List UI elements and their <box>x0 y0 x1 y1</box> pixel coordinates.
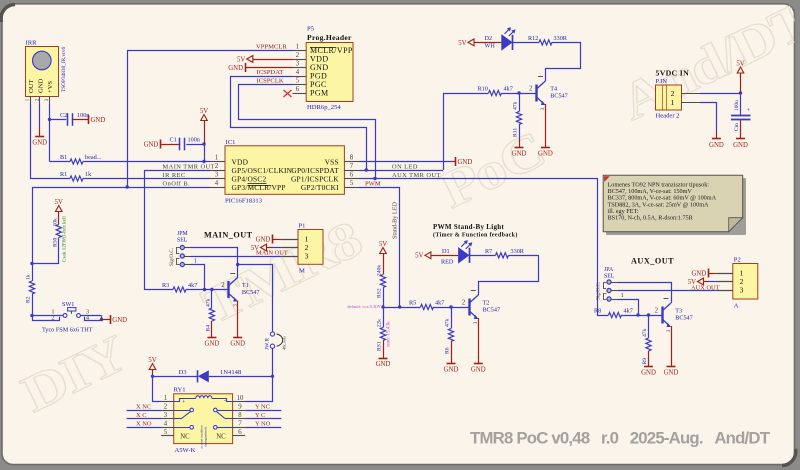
svg-text:GND: GND <box>664 370 679 377</box>
svg-text:10k: 10k <box>53 218 59 227</box>
svg-text:2: 2 <box>215 163 219 170</box>
svg-text:1k: 1k <box>85 171 92 178</box>
transistor Q4 T4 BC547 <box>529 77 568 111</box>
wire JPA top to T3 collector <box>617 283 671 304</box>
wire IRR OUT to R1 <box>31 104 71 179</box>
svg-text:BC547: BC547 <box>675 315 693 322</box>
wire R5 to T2 base <box>434 305 470 308</box>
wire ICSPDAT net <box>231 69 367 170</box>
connector P2 AUX <box>716 257 758 310</box>
wire R10 to T4 base <box>502 91 537 94</box>
svg-text:R7: R7 <box>485 248 492 255</box>
svg-text:T4: T4 <box>550 86 557 93</box>
svg-text:WH: WH <box>485 43 496 50</box>
svg-text:PWM Stand-By Light: PWM Stand-By Light <box>433 223 504 231</box>
ground R11 <box>515 147 524 149</box>
svg-text:NC: NC <box>180 434 190 441</box>
power 5V at RS2 <box>379 241 387 275</box>
svg-text:HDR6p_254: HDR6p_254 <box>307 104 341 111</box>
wire PWM net <box>360 181 400 308</box>
ferrite bead B1 <box>60 154 102 164</box>
svg-text:100n: 100n <box>188 137 200 144</box>
svg-text:+VS: +VS <box>47 81 54 93</box>
resistor R4 47k <box>206 290 215 338</box>
svg-text:GND: GND <box>709 142 724 149</box>
svg-text:R6: R6 <box>445 347 451 354</box>
connector P1 MAIN <box>281 223 323 275</box>
svg-text:2: 2 <box>671 89 675 98</box>
svg-text:P5: P5 <box>307 26 315 33</box>
svg-text:22k: 22k <box>377 319 383 328</box>
ground RS1 <box>379 358 388 360</box>
svg-text:5VDC IN: 5VDC IN <box>656 69 690 78</box>
svg-text:1: 1 <box>215 155 218 162</box>
svg-text:VPPMCLR: VPPMCLR <box>256 44 287 51</box>
svg-text:1: 1 <box>671 98 675 107</box>
svg-text:4k7: 4k7 <box>624 308 633 315</box>
wire R50 to OnOff net <box>32 238 59 264</box>
wire relay Y contacts <box>245 411 281 428</box>
svg-text:+: + <box>747 107 751 114</box>
svg-text:Sig/O.C.: Sig/O.C. <box>596 282 602 300</box>
svg-text:47k: 47k <box>642 328 648 337</box>
transistor Q2 T2 BC547 <box>462 291 500 325</box>
svg-text:10: 10 <box>237 395 244 402</box>
capacitor Cin 100u <box>731 93 751 139</box>
svg-text:R2: R2 <box>26 296 32 303</box>
wire JPA bottom to T3 base <box>617 300 640 317</box>
svg-text:1k: 1k <box>26 274 32 280</box>
svg-text:OnOff B.: OnOff B. <box>163 180 191 187</box>
power 5V arrow D1 <box>415 252 458 260</box>
svg-text:(Timer & Function feedback): (Timer & Function feedback) <box>433 232 518 239</box>
svg-text:Prog.Header: Prog.Header <box>307 33 352 42</box>
ground T1 <box>233 337 242 339</box>
svg-text:R12: R12 <box>528 35 538 42</box>
power 5V input <box>736 61 744 94</box>
ground IRR <box>35 136 44 138</box>
svg-text:MAIN OUT: MAIN OUT <box>256 249 288 256</box>
svg-text:MAIN TMR OUT: MAIN TMR OUT <box>163 163 216 170</box>
svg-text:5: 5 <box>350 180 354 187</box>
svg-text:5V: 5V <box>736 61 744 68</box>
svg-text:SW1: SW1 <box>62 301 74 308</box>
svg-text:AUX OUT: AUX OUT <box>691 284 720 291</box>
wire R1 to IC <box>83 178 210 180</box>
resistor RS1 22k <box>377 307 392 358</box>
resistor R3 4k7 <box>162 282 197 292</box>
svg-text:1: 1 <box>164 395 167 402</box>
power 5V at D3 <box>148 357 156 378</box>
svg-text:3: 3 <box>164 412 168 419</box>
svg-text:demagnetized): demagnetized) <box>203 427 207 446</box>
resistor RS2 240k <box>377 265 386 307</box>
svg-text:GND: GND <box>205 341 220 348</box>
wire JW.R to relay coil <box>245 348 274 401</box>
svg-text:JW.R: JW.R <box>265 338 271 350</box>
svg-text:R50: R50 <box>53 237 59 247</box>
svg-text:JPA: JPA <box>604 267 614 273</box>
wire T2 emitter to ground <box>478 318 480 364</box>
svg-text:GND: GND <box>538 150 553 157</box>
note box transistor types <box>603 175 746 235</box>
resistor R11 47k <box>513 93 522 147</box>
svg-text:IR REC: IR REC <box>163 172 186 179</box>
svg-text:P1: P1 <box>299 223 306 230</box>
svg-text:GND: GND <box>471 367 486 374</box>
svg-text:Header 2: Header 2 <box>656 113 680 120</box>
svg-text:X NO: X NO <box>136 420 152 427</box>
wire VSS to ground <box>360 161 456 163</box>
svg-text:JPM: JPM <box>177 231 188 237</box>
svg-text:Sig/O.C.: Sig/O.C. <box>169 248 175 266</box>
svg-text:ICSPDAT: ICSPDAT <box>257 69 284 76</box>
svg-text:ON LED: ON LED <box>392 163 418 170</box>
wire P.IN pin2 to 5V node <box>700 91 742 94</box>
svg-text:GND: GND <box>144 141 159 148</box>
svg-text:6: 6 <box>350 172 354 179</box>
svg-text:6: 6 <box>296 86 300 93</box>
svg-text:C2: C2 <box>60 112 67 119</box>
wire T4 collector loop <box>546 43 581 82</box>
wire ON LED net <box>360 94 489 172</box>
resistor R6 47k <box>445 307 454 364</box>
svg-text:5V: 5V <box>55 199 63 206</box>
power 5V arrow D2 <box>458 39 501 47</box>
svg-text:5V: 5V <box>458 40 466 47</box>
wire T3 emitter to ground <box>671 326 673 367</box>
svg-text:Y NO: Y NO <box>255 420 271 427</box>
svg-text:4k7: 4k7 <box>435 300 444 307</box>
resistor R1 1k <box>60 171 92 181</box>
resistor R7 330R <box>485 248 525 258</box>
svg-text:D2: D2 <box>485 35 493 42</box>
IC U1 IC1 PIC16F18313 <box>210 139 360 205</box>
svg-text:100u: 100u <box>734 100 740 111</box>
svg-text:BC547: BC547 <box>550 93 568 100</box>
wire AUX TMR OUT net <box>360 172 609 316</box>
svg-text:GND: GND <box>230 341 245 348</box>
svg-text:1: 1 <box>194 257 197 264</box>
LED D2 WH <box>485 27 540 51</box>
svg-text:2: 2 <box>529 86 533 93</box>
svg-text:3: 3 <box>296 61 300 68</box>
svg-text:P2: P2 <box>734 257 741 264</box>
svg-text:5V: 5V <box>379 241 387 248</box>
svg-text:Cin: Cin <box>734 123 740 131</box>
resistor R5 4k7 <box>409 300 444 310</box>
capacitor C2 100n <box>60 112 89 126</box>
svg-text:GND: GND <box>512 150 527 157</box>
svg-text:TMR8 PoC v0,48 r.0 2025-Au: TMR8 PoC v0,48 r.0 2025-Aug. And/DT <box>470 429 771 448</box>
ground T2 <box>474 363 483 365</box>
wire C2 to ground <box>72 119 88 121</box>
svg-text:GND: GND <box>32 140 47 147</box>
svg-text:BC547: BC547 <box>242 289 260 296</box>
svg-text:R9: R9 <box>642 358 648 365</box>
svg-text:330R: 330R <box>511 248 525 255</box>
svg-text:D1: D1 <box>442 248 450 255</box>
svg-text:R5: R5 <box>409 300 416 307</box>
svg-text:PGM: PGM <box>310 89 329 98</box>
svg-text:C1: C1 <box>170 137 177 144</box>
wire MAIN TMR OUT to R3 <box>145 171 211 290</box>
svg-text:5V: 5V <box>200 108 208 115</box>
svg-text:sum: 15.43k: sum: 15.43k <box>386 321 392 347</box>
svg-text:PIC16F18313: PIC16F18313 <box>225 198 263 205</box>
svg-text:BS170, N-ch, 0.5A, R-dson:1.75: BS170, N-ch, 0.5A, R-dson:1.75R <box>608 215 694 222</box>
power 5V at R50 <box>55 199 63 225</box>
ground C1 <box>160 140 162 149</box>
svg-text:X NC: X NC <box>136 403 151 410</box>
svg-text:2: 2 <box>221 282 225 289</box>
resistor R10 4k7 <box>478 86 513 96</box>
ground P5 pin3 <box>228 63 292 72</box>
ground T4 <box>541 147 550 149</box>
power 5V arrow P2 pin2 <box>688 278 716 286</box>
svg-text:47k: 47k <box>445 318 451 327</box>
wire P.IN pin1 to ground <box>700 102 717 139</box>
ground P2 pin1 <box>691 269 715 278</box>
svg-text:5V: 5V <box>415 253 423 260</box>
LED D1 RED <box>441 240 496 265</box>
ground R9 <box>644 366 653 368</box>
ground T3 <box>667 366 676 368</box>
wire T4 emitter to ground <box>545 104 547 147</box>
svg-text:GND: GND <box>733 142 748 149</box>
connector P5 Prog.Header HDR6p_254 <box>293 26 354 112</box>
svg-text:Tyco FSM 6x6 THT: Tyco FSM 6x6 THT <box>42 327 93 334</box>
svg-text:GND: GND <box>228 65 243 72</box>
svg-text:T1: T1 <box>242 282 249 289</box>
svg-text:R10: R10 <box>478 86 488 93</box>
label PWM Stand-By Light <box>433 223 518 239</box>
wire SW1 connections <box>30 314 110 321</box>
svg-text:OUT: OUT <box>28 79 35 93</box>
wire R3 to T1 base <box>186 288 229 291</box>
svg-text:GND: GND <box>256 236 271 243</box>
svg-text:330R: 330R <box>554 35 568 42</box>
svg-text:X C: X C <box>136 412 146 419</box>
svg-text:5V: 5V <box>237 56 245 63</box>
svg-text:8: 8 <box>350 155 354 162</box>
svg-text:3: 3 <box>666 329 672 332</box>
wire VPPMCLR net <box>128 44 293 187</box>
svg-text:3: 3 <box>215 172 219 179</box>
jumper JW.R <box>265 332 287 350</box>
svg-text:-: - <box>224 399 226 405</box>
wire AUX OUT to P2 pin3 <box>617 290 716 292</box>
svg-text:IC1: IC1 <box>226 139 236 146</box>
connector P.IN 5VDC IN Header 2 <box>656 69 701 120</box>
wire IRR +VS / C2 node <box>48 104 67 162</box>
svg-text:A: A <box>734 303 739 310</box>
wire T1 emitter to ground <box>237 301 239 338</box>
ground P.IN <box>712 138 721 140</box>
svg-text:240k: 240k <box>377 265 383 276</box>
ground P1 pin1 <box>256 235 282 244</box>
ground VSS <box>455 157 457 166</box>
svg-text:A5W-K: A5W-K <box>175 447 196 454</box>
svg-text:7: 7 <box>238 421 242 428</box>
svg-text:RS2: RS2 <box>377 288 383 298</box>
wire VDD rail <box>50 160 211 163</box>
svg-text:4: 4 <box>296 69 300 76</box>
svg-text:2: 2 <box>296 52 300 59</box>
ground SW1 <box>110 315 112 324</box>
resistor R12 330R <box>528 35 568 45</box>
svg-text:GND: GND <box>37 78 44 93</box>
wire IRR pin2 to ground <box>39 104 41 128</box>
svg-text:4k7: 4k7 <box>504 86 513 93</box>
svg-text:GND: GND <box>691 270 706 277</box>
power 5V arrow P1 pin2 <box>251 244 282 252</box>
wire MAIN OUT to P1 pin3 <box>191 256 282 258</box>
svg-text:Csak 12F683-hoz kell: Csak 12F683-hoz kell <box>62 216 68 262</box>
diode D3 1N4148 <box>153 369 273 382</box>
svg-text:T2: T2 <box>483 300 490 307</box>
resistor R2 1k <box>26 274 35 303</box>
svg-text:AUX_OUT: AUX_OUT <box>631 257 674 266</box>
transistor Q1 T1 BC547 <box>221 274 259 307</box>
svg-text:SEL: SEL <box>604 274 615 280</box>
svg-text:GP2/T0CKI: GP2/T0CKI <box>301 183 339 192</box>
svg-text:GND: GND <box>112 317 127 324</box>
wire R7 to T2 collector <box>479 256 539 296</box>
svg-text:4k7: 4k7 <box>188 282 197 289</box>
svg-text:GP3/MCLR/VPP: GP3/MCLR/VPP <box>232 183 286 192</box>
svg-text:1: 1 <box>621 292 624 299</box>
svg-text:9: 9 <box>238 404 242 411</box>
svg-text:47k: 47k <box>206 298 212 307</box>
resistor R50 10k <box>53 216 68 262</box>
svg-text:GND: GND <box>458 159 473 166</box>
no-connect X on P5 pin6 <box>284 90 292 97</box>
svg-text:4: 4 <box>215 180 219 187</box>
svg-text:R3: R3 <box>162 282 169 289</box>
svg-text:47k: 47k <box>513 101 519 110</box>
svg-text:2: 2 <box>655 308 659 315</box>
wire JPM top to T1 collector <box>191 248 240 278</box>
capacitor C1 100n <box>160 137 205 151</box>
svg-text:7: 7 <box>350 163 354 170</box>
svg-text:R11: R11 <box>513 128 519 137</box>
wire 5V to relay pin1 <box>153 376 162 401</box>
svg-text:GND: GND <box>641 370 656 377</box>
svg-text:1N4148: 1N4148 <box>220 369 242 376</box>
wire T1 collector to JW.R <box>238 265 273 332</box>
wire ICSPCLK net <box>239 78 376 179</box>
svg-text:5: 5 <box>296 78 300 85</box>
ground Cin <box>736 138 745 140</box>
svg-text:BC547: BC547 <box>483 307 501 314</box>
svg-text:RY1: RY1 <box>174 387 186 394</box>
svg-text:GND: GND <box>376 361 391 368</box>
svg-text:AUX TMR OUT: AUX TMR OUT <box>392 172 441 179</box>
wire PWM divider node <box>381 305 420 308</box>
svg-text:Y C: Y C <box>255 412 265 419</box>
svg-text:100n: 100n <box>77 112 89 119</box>
svg-text:3: 3 <box>740 286 744 295</box>
jumper JPA SEL <box>596 267 624 301</box>
svg-text:MAIN_OUT: MAIN_OUT <box>204 231 253 240</box>
power 5V at C1 <box>200 108 208 162</box>
IR receiver IRR TSOP34838 <box>26 40 68 105</box>
svg-text:bead...: bead... <box>85 154 102 161</box>
svg-text:M: M <box>299 268 305 275</box>
svg-text:R8: R8 <box>594 308 601 315</box>
ground C2 <box>88 115 90 124</box>
svg-text:R4: R4 <box>206 325 212 332</box>
svg-text:GND: GND <box>91 117 106 124</box>
jumper JPM SEL <box>169 231 197 267</box>
svg-text:2: 2 <box>462 300 466 307</box>
svg-text:P.IN: P.IN <box>656 78 668 85</box>
svg-text:5V: 5V <box>148 357 156 364</box>
svg-text:default: cca 0.30V: default: cca 0.30V <box>347 304 381 309</box>
svg-text:6: 6 <box>238 429 242 436</box>
svg-text:B1: B1 <box>60 154 67 161</box>
wire relay X contacts <box>127 411 162 428</box>
wire OnOff B. net <box>30 185 210 315</box>
wire JPM bottom to T1 base <box>191 265 205 290</box>
svg-text:Y NC: Y NC <box>255 403 270 410</box>
svg-text:T3: T3 <box>675 308 682 315</box>
svg-text:8: 8 <box>238 412 242 419</box>
svg-text:GND: GND <box>444 367 459 374</box>
transistor Q3 T3 BC547 <box>655 299 693 333</box>
power 5V arrow P5 pin2 <box>237 56 293 64</box>
svg-text:2: 2 <box>164 404 168 411</box>
svg-text:1: 1 <box>296 44 299 51</box>
svg-text:SEL: SEL <box>177 238 188 244</box>
svg-text:3: 3 <box>305 252 309 261</box>
svg-text:TSOP34838_IR.vrv6: TSOP34838_IR.vrv6 <box>61 46 67 92</box>
svg-text:R1: R1 <box>60 171 67 178</box>
svg-text:PWM: PWM <box>365 181 381 188</box>
ground R4 <box>207 337 216 339</box>
svg-text:5: 5 <box>164 429 168 436</box>
switch SW1 Tyco FSM 6x6 THT <box>42 301 93 334</box>
svg-text:4: 4 <box>164 421 168 428</box>
svg-text:4tk.ööls: 4tk.ööls <box>282 336 287 350</box>
svg-text:NC: NC <box>216 434 226 441</box>
svg-text:ICSPCLK: ICSPCLK <box>257 78 284 85</box>
svg-text:RS1: RS1 <box>377 341 383 351</box>
relay RY1 A5W-K <box>161 387 245 455</box>
resistor R9 47k <box>642 315 651 367</box>
ground R6 <box>447 363 456 365</box>
svg-text:D3: D3 <box>179 369 188 376</box>
svg-text:IRR: IRR <box>26 40 38 47</box>
svg-text:Stand-By LED: Stand-By LED <box>392 202 399 239</box>
wire R8 to T3 base <box>622 313 663 316</box>
svg-text:RED: RED <box>441 259 454 266</box>
resistor R8 4k7 <box>594 308 633 318</box>
